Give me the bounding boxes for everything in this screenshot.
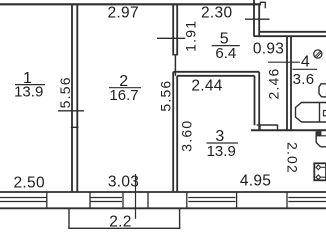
svg-text:1.91: 1.91 xyxy=(182,20,198,52)
room 1 fraction bar xyxy=(15,84,45,86)
window glazing lines: window 1 xyxy=(0,197,47,199)
door jamb cap xyxy=(172,54,178,56)
svg-text:4.95: 4.95 xyxy=(240,173,271,190)
svg-text:13.9: 13.9 xyxy=(207,143,236,160)
room 5 right wall xyxy=(253,0,255,37)
tick on wall 1/2 xyxy=(58,110,84,112)
svg-text:2.02: 2.02 xyxy=(285,142,301,174)
balcony outline xyxy=(68,208,70,228)
wire top-right step notch xyxy=(260,2,265,8)
tick top right xyxy=(245,18,270,20)
cap on wall 1/2 xyxy=(71,126,79,128)
svg-text:13.9: 13.9 xyxy=(14,83,43,100)
svg-text:5.56: 5.56 xyxy=(57,76,73,108)
room 5 fraction bar xyxy=(212,45,240,47)
svg-text:5.56: 5.56 xyxy=(158,80,174,112)
room 2 fraction bar xyxy=(109,87,141,89)
svg-text:4: 4 xyxy=(301,53,310,70)
svg-text:2.46: 2.46 xyxy=(266,67,282,99)
radiator / stove symbol xyxy=(314,163,326,180)
window 2 xyxy=(90,197,122,199)
sink below wall xyxy=(315,132,317,143)
svg-text:2.44: 2.44 xyxy=(191,77,222,94)
room 3 fraction bar xyxy=(207,142,239,144)
svg-text:2.2: 2.2 xyxy=(109,213,131,230)
bathroom (room 4) left wall xyxy=(286,36,288,130)
room 3 right wall xyxy=(254,76,256,126)
wall between room 1 and room 2 xyxy=(71,4,73,192)
svg-text:0.93: 0.93 xyxy=(253,41,284,58)
bathtub faucet box xyxy=(324,111,326,116)
toilet xyxy=(319,84,326,97)
room 4 fraction bar xyxy=(293,68,318,70)
bottom wall of bathroom / corridor xyxy=(251,129,326,131)
band dividers xyxy=(46,192,48,209)
closet bottom box xyxy=(257,124,278,126)
door opening edge line xyxy=(174,55,176,76)
svg-text:2.30: 2.30 xyxy=(201,4,232,21)
svg-text:6.4: 6.4 xyxy=(215,45,236,62)
room 4 leader line xyxy=(268,61,300,63)
svg-text:3.6: 3.6 xyxy=(293,71,315,88)
svg-text:2.50: 2.50 xyxy=(14,174,45,191)
wall under void (top-right) xyxy=(259,31,326,33)
bathtub xyxy=(296,103,326,123)
room 3 top wall xyxy=(173,71,259,73)
wall room2/room3 lower part xyxy=(172,72,174,192)
bottom band: outer lines xyxy=(0,191,326,193)
svg-text:16.7: 16.7 xyxy=(109,87,138,104)
leader line for 2.2 / 3.03 xyxy=(135,174,137,219)
window 3 xyxy=(188,197,235,199)
wire top exterior wall xyxy=(0,3,261,5)
svg-text:3.60: 3.60 xyxy=(178,120,194,152)
window 4 xyxy=(288,197,326,199)
svg-text:2.97: 2.97 xyxy=(108,4,139,21)
vent circle symbol xyxy=(314,50,322,58)
tick for dim 1.91 xyxy=(157,37,185,39)
svg-text:3.03: 3.03 xyxy=(108,173,139,190)
wall between room 2 and rooms 5/3 xyxy=(172,4,174,55)
